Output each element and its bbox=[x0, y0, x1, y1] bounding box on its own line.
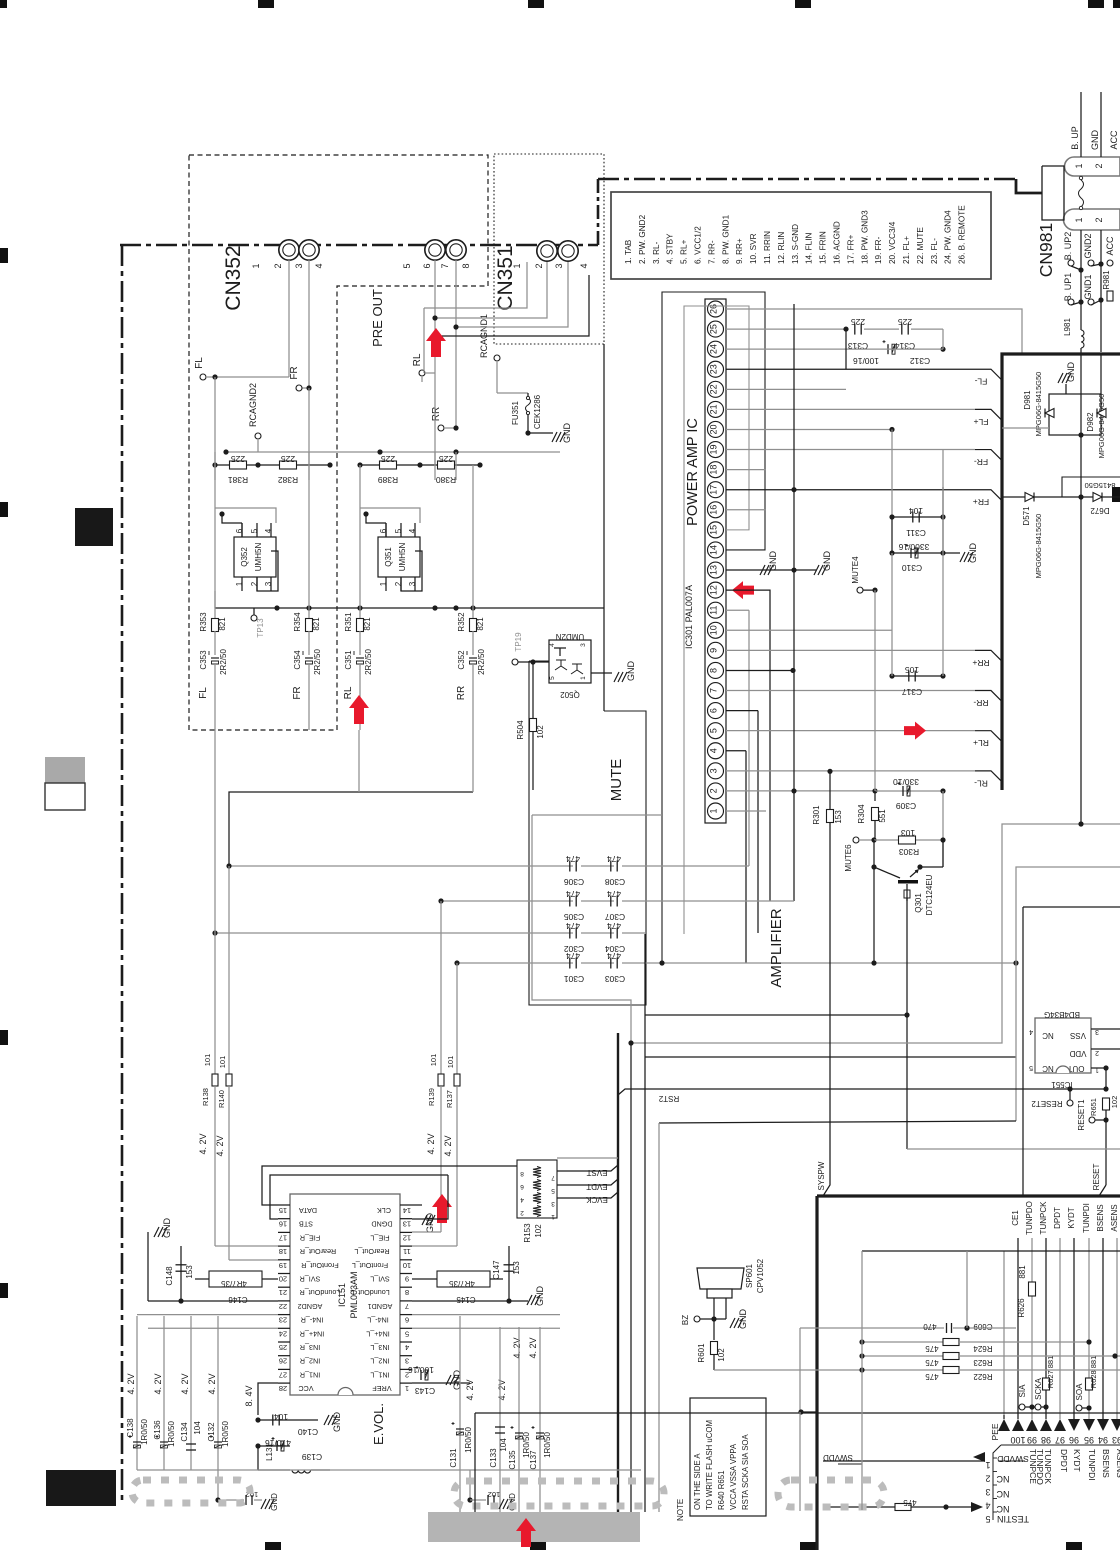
svg-text:475: 475 bbox=[925, 1358, 939, 1367]
svg-text:19: 19 bbox=[709, 445, 719, 455]
svg-text:MUTE: MUTE bbox=[608, 759, 625, 802]
wire RL bbox=[434, 260, 436, 373]
svg-text:225: 225 bbox=[898, 317, 912, 327]
svg-text:1: 1 bbox=[985, 1460, 990, 1470]
long vertical buses bbox=[793, 304, 795, 901]
svg-text:474: 474 bbox=[566, 921, 580, 931]
capacitor C134 104 bbox=[190, 1316, 192, 1470]
capacitor C354 2R2/50 bbox=[305, 657, 313, 659]
svg-text:GND: GND bbox=[535, 1286, 545, 1307]
gray racetrack mid bbox=[454, 1481, 664, 1506]
svg-text:8: 8 bbox=[709, 668, 719, 673]
labels EVST EVDT EVCK bbox=[557, 1157, 618, 1159]
horizontal wire 1251 bbox=[862, 1250, 1120, 1252]
note box bbox=[690, 1398, 766, 1516]
svg-text:1: 1 bbox=[551, 1213, 555, 1220]
svg-text:4: 4 bbox=[549, 643, 556, 647]
large black rectangle bottom-left bbox=[46, 1470, 116, 1506]
svg-text:15. FRIN: 15. FRIN bbox=[819, 231, 828, 264]
resistor R623 475 bbox=[862, 1355, 946, 1357]
svg-text:17: 17 bbox=[279, 1233, 287, 1242]
nested routing rect pin14 bbox=[662, 292, 765, 963]
svg-text:C146: C146 bbox=[228, 1295, 248, 1304]
ground above C148 bbox=[154, 1227, 159, 1237]
svg-text:102: 102 bbox=[488, 1490, 501, 1499]
svg-text:4. 2V: 4. 2V bbox=[465, 1379, 475, 1400]
bus x967 bbox=[966, 1251, 968, 1328]
svg-text:IN3_L: IN3_L bbox=[370, 1343, 389, 1352]
svg-text:12: 12 bbox=[403, 1233, 411, 1242]
svg-text:5: 5 bbox=[394, 528, 403, 533]
svg-text:104: 104 bbox=[499, 1438, 508, 1452]
red arrow RL lower bbox=[349, 695, 369, 724]
svg-text:CE1: CE1 bbox=[1011, 1210, 1020, 1226]
node RL- wedge bbox=[975, 771, 1001, 781]
svg-text:ACC: ACC bbox=[1105, 236, 1115, 256]
capacitor C352 2R2/50 bbox=[469, 657, 477, 659]
wires above CN981 bbox=[1080, 92, 1082, 157]
svg-text:FL+: FL+ bbox=[974, 417, 989, 427]
svg-text:2: 2 bbox=[273, 263, 283, 268]
wire RCAGND1 bbox=[494, 355, 500, 361]
svg-text:RCAGND2: RCAGND2 bbox=[248, 383, 258, 427]
capacitor 102 bottom bbox=[217, 1470, 219, 1500]
svg-text:1: 1 bbox=[512, 263, 522, 268]
svg-text:153: 153 bbox=[834, 810, 843, 824]
svg-text:93: 93 bbox=[1112, 1435, 1120, 1445]
svg-text:3: 3 bbox=[554, 263, 564, 268]
svg-text:C351: C351 bbox=[344, 650, 353, 670]
svg-text:R153: R153 bbox=[523, 1223, 532, 1243]
vref parts C143 100/16 bbox=[412, 1382, 470, 1384]
wire x1023 corner bbox=[1023, 906, 1120, 908]
svg-text:101: 101 bbox=[203, 1054, 212, 1067]
wire FL bbox=[288, 260, 290, 377]
svg-text:R651: R651 bbox=[1089, 1098, 1098, 1116]
red arrow bottom bbox=[516, 1518, 536, 1547]
svg-text:IN4+_R: IN4+_R bbox=[300, 1329, 325, 1338]
svg-text:SWVDD: SWVDD bbox=[823, 1453, 853, 1462]
svg-text:475: 475 bbox=[903, 1498, 917, 1507]
transistor Q351 UMH5N bbox=[378, 537, 420, 577]
svg-text:D571: D571 bbox=[1022, 506, 1031, 526]
svg-text:2: 2 bbox=[250, 581, 259, 586]
svg-text:R352: R352 bbox=[457, 612, 466, 632]
svg-text:1R0/50: 1R0/50 bbox=[221, 1421, 230, 1447]
svg-text:19. FR-: 19. FR- bbox=[874, 236, 883, 264]
junction wires to preamp resistors bbox=[434, 373, 436, 465]
svg-text:C131: C131 bbox=[449, 1448, 458, 1468]
svg-text:12. RLIN: 12. RLIN bbox=[777, 232, 786, 264]
svg-text:NC: NC bbox=[996, 1504, 1009, 1514]
svg-text:R301: R301 bbox=[812, 805, 821, 825]
svg-text:1R0/50: 1R0/50 bbox=[167, 1421, 176, 1447]
svg-text:GND: GND bbox=[738, 1309, 748, 1330]
svg-text:FIE_R: FIE_R bbox=[300, 1233, 320, 1242]
svg-text:MUTE6: MUTE6 bbox=[844, 844, 853, 872]
gray racetrack right bbox=[778, 1480, 884, 1507]
diode D672 bbox=[1093, 493, 1102, 502]
svg-text:BSENS: BSENS bbox=[1096, 1204, 1105, 1231]
svg-text:D672: D672 bbox=[1090, 506, 1110, 515]
wire bus 1315 bbox=[137, 1314, 278, 1316]
svg-text:RL: RL bbox=[343, 686, 354, 699]
svg-text:TESTIN: TESTIN bbox=[997, 1514, 1029, 1524]
wire bottom into box bbox=[799, 1328, 801, 1412]
wires into IC151 left bbox=[262, 1166, 557, 1205]
svg-text:C140: C140 bbox=[298, 1427, 319, 1437]
thick bus x618 bbox=[617, 1033, 619, 1512]
svg-text:3: 3 bbox=[709, 768, 719, 773]
svg-text:R139: R139 bbox=[427, 1088, 436, 1106]
svg-text:GND: GND bbox=[1090, 130, 1100, 151]
svg-text:GND: GND bbox=[562, 423, 572, 444]
capacitor C310 3300/16 bbox=[892, 552, 943, 554]
svg-text:CN351: CN351 bbox=[494, 245, 517, 310]
dashed box CN352/PRE OUT bbox=[189, 155, 488, 730]
svg-text:R622: R622 bbox=[973, 1372, 993, 1381]
svg-text:RESET1: RESET1 bbox=[1077, 1099, 1086, 1131]
capacitor C314 225 bbox=[864, 328, 899, 330]
svg-text:FU351: FU351 bbox=[511, 400, 520, 425]
svg-text:RESET: RESET bbox=[1092, 1164, 1101, 1191]
wire y1015 to Q301 emitter bus bbox=[645, 1014, 907, 1016]
svg-text:5: 5 bbox=[985, 1514, 990, 1524]
svg-text:D982: D982 bbox=[1086, 412, 1095, 432]
test point TP19 bbox=[512, 659, 518, 665]
svg-text:SVI_L: SVI_L bbox=[370, 1275, 390, 1284]
svg-text:ASENS: ASENS bbox=[1110, 1204, 1119, 1231]
svg-text:100/16: 100/16 bbox=[853, 356, 879, 366]
large black calibration square bbox=[75, 508, 113, 546]
wire FR bbox=[308, 260, 310, 388]
svg-text:7: 7 bbox=[551, 1174, 555, 1181]
resistor R139 101 bbox=[438, 1074, 444, 1086]
svg-text:97: 97 bbox=[1055, 1435, 1065, 1445]
resistor R380 225 bbox=[420, 464, 480, 466]
bus x659 bbox=[658, 1123, 660, 1512]
svg-text:2R2/50: 2R2/50 bbox=[219, 649, 228, 675]
capacitor C131 1R0/50 bbox=[459, 1316, 461, 1512]
svg-text:R981: R981 bbox=[1102, 270, 1111, 290]
svg-text:4. 2V: 4. 2V bbox=[198, 1133, 208, 1154]
wires VCC bbox=[258, 1383, 278, 1415]
svg-text:6. VCC1/2: 6. VCC1/2 bbox=[694, 226, 703, 264]
svg-text:102: 102 bbox=[717, 1348, 726, 1362]
svg-text:TUNPDO: TUNPDO bbox=[1025, 1201, 1034, 1235]
Q352 surrounding wires bbox=[222, 514, 242, 523]
svg-text:CPV1052: CPV1052 bbox=[756, 1258, 765, 1293]
test point TP13 bbox=[251, 615, 257, 621]
svg-text:C147: C147 bbox=[492, 1260, 501, 1280]
svg-text:474: 474 bbox=[607, 889, 621, 899]
svg-text:GND2: GND2 bbox=[1083, 233, 1093, 258]
svg-text:22. MUTE: 22. MUTE bbox=[916, 227, 925, 264]
svg-text:NC: NC bbox=[1042, 1064, 1054, 1073]
svg-text:6: 6 bbox=[520, 1183, 524, 1190]
svg-text:4: 4 bbox=[314, 263, 324, 268]
svg-text:C301: C301 bbox=[564, 974, 585, 984]
svg-text:474: 474 bbox=[566, 889, 580, 899]
resistor R601 102 bbox=[713, 1319, 715, 1340]
svg-text:27: 27 bbox=[279, 1370, 287, 1379]
resistor R651 102 bbox=[1103, 1098, 1110, 1110]
svg-text:R389: R389 bbox=[378, 475, 399, 485]
svg-text:16. ACGND: 16. ACGND bbox=[833, 221, 842, 264]
svg-text:2: 2 bbox=[394, 581, 403, 586]
svg-text:R353: R353 bbox=[199, 612, 208, 632]
wire AGND bbox=[148, 1300, 278, 1302]
svg-text:20: 20 bbox=[279, 1275, 287, 1284]
svg-text:3: 3 bbox=[408, 581, 417, 586]
thick section box bbox=[1002, 354, 1120, 790]
red arrow pin 12 bbox=[732, 581, 754, 599]
svg-text:102: 102 bbox=[534, 1224, 543, 1238]
svg-text:9. RR+: 9. RR+ bbox=[735, 238, 744, 264]
svg-text:474: 474 bbox=[607, 951, 621, 961]
svg-text:RearOut_R: RearOut_R bbox=[300, 1247, 336, 1256]
resistor array R153 bbox=[517, 1160, 557, 1218]
svg-text:FR-: FR- bbox=[974, 457, 988, 467]
svg-text:1: 1 bbox=[405, 1384, 409, 1393]
resistor R351 821 bbox=[359, 465, 361, 619]
svg-text:SP601: SP601 bbox=[745, 1263, 754, 1288]
svg-text:L981: L981 bbox=[1063, 318, 1072, 336]
svg-text:UMH5N: UMH5N bbox=[398, 543, 407, 572]
svg-text:IN1_R: IN1_R bbox=[300, 1370, 320, 1379]
svg-text:8. PW. GND1: 8. PW. GND1 bbox=[721, 214, 730, 264]
svg-text:KYDT: KYDT bbox=[1067, 1207, 1076, 1228]
svg-text:225: 225 bbox=[281, 454, 295, 464]
resistor R504 102 bbox=[532, 662, 534, 718]
wires CN981 down bbox=[1080, 230, 1082, 330]
svg-text:EVCK: EVCK bbox=[585, 1195, 607, 1204]
svg-text:1: 1 bbox=[1074, 217, 1084, 222]
terminal RESET2 bbox=[1067, 1086, 1072, 1091]
chain line vertical connector bbox=[597, 179, 600, 245]
svg-text:821: 821 bbox=[218, 617, 227, 631]
capacitor C305 474 bbox=[441, 900, 573, 902]
resistor R626 881 bbox=[1029, 1282, 1036, 1296]
svg-text:MPG06G-8415G50: MPG06G-8415G50 bbox=[1034, 514, 1043, 579]
svg-text:DGND: DGND bbox=[371, 1220, 392, 1229]
ground near CLK bbox=[412, 1204, 422, 1206]
svg-text:3: 3 bbox=[405, 1357, 409, 1366]
svg-text:2. PW. GND2: 2. PW. GND2 bbox=[638, 214, 647, 264]
capacitor C132 1R0/50 bbox=[217, 1316, 219, 1470]
svg-text:FL-: FL- bbox=[974, 377, 987, 387]
svg-text:104: 104 bbox=[909, 506, 923, 516]
svg-text:AGND1: AGND1 bbox=[368, 1302, 393, 1311]
wires pins 16-26 to right bbox=[726, 309, 1022, 354]
svg-text:25: 25 bbox=[709, 324, 719, 334]
svg-text:7: 7 bbox=[709, 688, 719, 693]
svg-text:225: 225 bbox=[381, 454, 395, 464]
svg-text:CN352: CN352 bbox=[222, 245, 245, 310]
svg-text:104: 104 bbox=[193, 1421, 202, 1435]
capacitor C353 2R2/50 bbox=[211, 657, 219, 659]
svg-text:2R2/50: 2R2/50 bbox=[364, 649, 373, 675]
svg-text:R624: R624 bbox=[973, 1344, 993, 1353]
CN981 pill 1 bbox=[1065, 157, 1120, 176]
svg-text:TO WRITE FLASH uCOM: TO WRITE FLASH uCOM bbox=[705, 1420, 714, 1510]
svg-text:CLK: CLK bbox=[377, 1206, 391, 1215]
gray/white swatch bbox=[45, 757, 85, 783]
svg-text:NC: NC bbox=[1042, 1031, 1054, 1040]
svg-text:C132: C132 bbox=[207, 1422, 216, 1442]
capacitor C317 105 bbox=[892, 675, 943, 677]
svg-text:21: 21 bbox=[279, 1288, 287, 1297]
ground near FU351 bbox=[528, 432, 553, 434]
resistor R353 821 bbox=[214, 465, 216, 619]
svg-text:L131: L131 bbox=[265, 1443, 274, 1461]
svg-text:IN4+_L: IN4+_L bbox=[366, 1329, 389, 1338]
uCOM chip edge bbox=[1001, 1444, 1120, 1446]
svg-text:R627 881: R627 881 bbox=[1046, 1356, 1055, 1389]
svg-text:PEE: PEE bbox=[990, 1423, 1000, 1440]
svg-text:TP13: TP13 bbox=[256, 618, 265, 638]
node FL- wedge bbox=[975, 369, 1001, 379]
node FR+ wedge bbox=[975, 490, 1001, 500]
capacitor C136 1R0/50 bbox=[163, 1316, 165, 1470]
svg-text:474: 474 bbox=[566, 854, 580, 864]
svg-text:EVDT: EVDT bbox=[586, 1182, 607, 1191]
svg-text:NC: NC bbox=[996, 1474, 1009, 1484]
svg-text:FL: FL bbox=[198, 687, 209, 699]
svg-text:26: 26 bbox=[279, 1357, 287, 1366]
svg-text:BD4B34G: BD4B34G bbox=[1044, 1010, 1080, 1019]
svg-text:SVI_R: SVI_R bbox=[300, 1275, 321, 1284]
svg-text:4: 4 bbox=[408, 528, 417, 533]
svg-text:C134: C134 bbox=[180, 1422, 189, 1442]
svg-text:CEK1286: CEK1286 bbox=[533, 394, 542, 429]
red arrow near CLK bbox=[432, 1194, 452, 1223]
svg-text:DATA: DATA bbox=[299, 1206, 317, 1215]
svg-text:4. 2V: 4. 2V bbox=[512, 1337, 522, 1358]
svg-text:24: 24 bbox=[709, 344, 719, 354]
svg-text:24: 24 bbox=[279, 1329, 287, 1338]
svg-text:5: 5 bbox=[709, 728, 719, 733]
wire y1123 bbox=[659, 1121, 1016, 1123]
capacitor C609 470 bbox=[800, 1327, 944, 1329]
capacitor C133 104 bbox=[499, 1327, 501, 1512]
svg-text:101: 101 bbox=[446, 1056, 455, 1069]
svg-text:E.VOL.: E.VOL. bbox=[371, 1403, 386, 1445]
terminals SIA SCKA SOA bbox=[1019, 1404, 1025, 1410]
svg-text:21. FL+: 21. FL+ bbox=[902, 236, 911, 264]
svg-text:474: 474 bbox=[566, 951, 580, 961]
capacitor C137 1R0/50 bbox=[539, 1327, 541, 1512]
svg-text:LoundOut_L: LoundOut_L bbox=[350, 1288, 390, 1297]
svg-text:16: 16 bbox=[279, 1220, 287, 1229]
svg-text:4. 2V: 4. 2V bbox=[126, 1373, 136, 1394]
terminal RESET1 bbox=[1089, 1117, 1095, 1123]
capacitor C307 474 bbox=[581, 900, 614, 902]
chain line horizontal right bbox=[598, 178, 1016, 181]
svg-text:474: 474 bbox=[607, 921, 621, 931]
svg-text:26. B. REMOTE: 26. B. REMOTE bbox=[958, 205, 967, 264]
capacitor C301 474 bbox=[457, 962, 573, 964]
svg-text:IN3_R: IN3_R bbox=[300, 1343, 320, 1352]
svg-text:TUNPDI: TUNPDI bbox=[1087, 1449, 1097, 1481]
svg-text:4. 2V: 4. 2V bbox=[426, 1133, 436, 1154]
svg-text:GND: GND bbox=[425, 1213, 435, 1234]
capacitor C139 470/16 bbox=[258, 1445, 290, 1447]
node FL+ wedge bbox=[975, 409, 1001, 419]
svg-text:RST2: RST2 bbox=[658, 1094, 679, 1103]
svg-text:TUNPCK: TUNPCK bbox=[1043, 1449, 1053, 1484]
svg-text:10. SVR: 10. SVR bbox=[749, 233, 758, 264]
CN981 body outline bbox=[1042, 166, 1064, 220]
bus x1016 with corners bbox=[1016, 867, 1120, 1121]
svg-text:23: 23 bbox=[709, 364, 719, 374]
svg-text:C133: C133 bbox=[489, 1448, 498, 1468]
svg-text:R138: R138 bbox=[201, 1088, 210, 1106]
svg-text:225: 225 bbox=[439, 454, 453, 464]
svg-text:94: 94 bbox=[1098, 1435, 1108, 1445]
svg-text:99: 99 bbox=[1027, 1435, 1037, 1445]
svg-text:102: 102 bbox=[536, 725, 545, 739]
svg-text:FL: FL bbox=[194, 357, 205, 369]
vertical wires right mid bbox=[942, 791, 944, 840]
resistor R622 475 bbox=[862, 1369, 946, 1371]
svg-text:475: 475 bbox=[925, 1372, 939, 1381]
wire RR bbox=[455, 260, 457, 428]
svg-text:C143: C143 bbox=[415, 1386, 436, 1396]
svg-text:MUTE4: MUTE4 bbox=[851, 556, 860, 584]
svg-text:Q502: Q502 bbox=[560, 690, 580, 699]
svg-text:MPG06G-8415G50: MPG06G-8415G50 bbox=[1097, 394, 1106, 459]
svg-text:C136: C136 bbox=[153, 1420, 162, 1440]
coil L131 bbox=[257, 1446, 259, 1470]
svg-text:18: 18 bbox=[279, 1247, 287, 1256]
svg-text:C303: C303 bbox=[605, 974, 626, 984]
svg-text:STB: STB bbox=[299, 1220, 313, 1229]
svg-text:IN1_L: IN1_L bbox=[370, 1370, 389, 1379]
svg-text:821: 821 bbox=[363, 617, 372, 631]
svg-text:FR: FR bbox=[292, 686, 303, 699]
svg-text:RR: RR bbox=[456, 686, 467, 700]
svg-text:NC: NC bbox=[996, 1489, 1009, 1499]
svg-text:RL-: RL- bbox=[974, 778, 988, 788]
svg-text:1: 1 bbox=[235, 581, 244, 586]
svg-text:225: 225 bbox=[851, 317, 865, 327]
svg-text:RL: RL bbox=[412, 353, 423, 366]
svg-text:11. RRIN: 11. RRIN bbox=[763, 231, 772, 264]
svg-text:9: 9 bbox=[709, 648, 719, 653]
svg-text:25: 25 bbox=[279, 1343, 287, 1352]
svg-text:10: 10 bbox=[709, 625, 719, 635]
svg-text:1. TAB: 1. TAB bbox=[624, 239, 633, 264]
svg-text:4: 4 bbox=[709, 748, 719, 753]
svg-text:VCCA VSSA VPPA: VCCA VSSA VPPA bbox=[729, 1443, 738, 1510]
svg-text:FIE_L: FIE_L bbox=[370, 1233, 389, 1242]
bus x645 bbox=[644, 934, 646, 1512]
wire y815 feeder bbox=[532, 814, 662, 816]
svg-text:C307: C307 bbox=[605, 912, 626, 922]
svg-text:4: 4 bbox=[985, 1501, 990, 1511]
resistor R352 821 bbox=[472, 465, 474, 619]
svg-text:C309: C309 bbox=[896, 801, 917, 811]
svg-text:14: 14 bbox=[403, 1206, 411, 1215]
nested routing rect pin15 bbox=[684, 306, 749, 934]
svg-text:FrontOut_L: FrontOut_L bbox=[352, 1261, 388, 1270]
svg-text:IN4-_L: IN4-_L bbox=[367, 1316, 389, 1325]
capacitor C140 104 bbox=[258, 1419, 290, 1421]
wire top mid-left bbox=[229, 792, 473, 866]
svg-text:SWVDD: SWVDD bbox=[997, 1454, 1029, 1464]
svg-text:14: 14 bbox=[709, 545, 719, 555]
